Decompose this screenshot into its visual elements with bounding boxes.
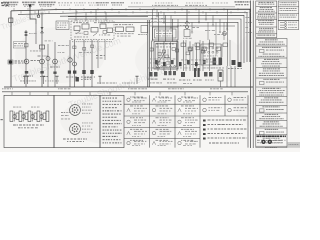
wire id labels	[246, 12, 252, 33]
label	[58, 51, 59, 54]
component row upper	[181, 43, 228, 51]
label	[20, 80, 22, 83]
label	[15, 61, 26, 64]
wire drops extra	[186, 40, 230, 71]
legend right column text	[280, 2, 297, 17]
cell divider	[224, 95, 226, 116]
label	[29, 32, 31, 35]
connector oval	[223, 32, 227, 36]
border divider	[250, 1, 252, 149]
inline component	[83, 48, 86, 51]
symbol cell	[178, 106, 198, 115]
label	[181, 59, 184, 62]
symbol cell	[228, 107, 247, 112]
watermark	[0, 7, 178, 110]
gauge G2	[40, 59, 45, 64]
connector labels	[148, 67, 214, 84]
label	[122, 83, 123, 84]
label	[97, 83, 99, 84]
legend right column frame	[278, 1, 299, 21]
wire	[69, 40, 71, 87]
ignition switch	[180, 25, 199, 39]
wire	[47, 44, 49, 87]
component cluster	[68, 71, 71, 74]
label	[45, 40, 48, 43]
connector C3	[141, 26, 148, 33]
round connector C210	[70, 104, 93, 116]
harness plug symbols	[23, 76, 139, 84]
relay K2	[213, 58, 217, 66]
symbol cell	[203, 97, 222, 102]
tie-downs to detail band	[12, 92, 232, 96]
title block	[235, 1, 250, 5]
symbol grid frame	[124, 95, 200, 147]
label	[183, 63, 186, 66]
component mark	[25, 71, 28, 74]
wire drop to cluster	[75, 9, 77, 21]
wire drops right	[227, 66, 235, 87]
caption	[63, 139, 87, 143]
wire bottom bus	[4, 86, 253, 88]
header rule	[128, 6, 235, 8]
fuse F1	[40, 45, 45, 49]
symbol cell	[152, 129, 171, 137]
wire drop to cluster	[105, 12, 107, 21]
connector clusters row	[149, 68, 223, 87]
wire drop	[223, 22, 225, 40]
component mark	[238, 62, 242, 67]
label	[211, 67, 212, 70]
symbol cell	[152, 106, 172, 115]
wire drop to switch	[158, 12, 160, 41]
label	[228, 67, 230, 70]
relay K3	[219, 58, 223, 66]
symbol cell	[178, 117, 198, 126]
symbol cell	[152, 140, 172, 146]
page number	[1, 119, 3, 120]
wire drop	[215, 22, 217, 40]
caption	[13, 125, 44, 129]
label	[81, 79, 83, 80]
symbol cell	[203, 107, 222, 112]
wire drops center-right	[152, 40, 210, 71]
label above wire	[152, 5, 207, 6]
wire tap ticks	[14, 8, 245, 14]
label	[214, 33, 216, 36]
feed wire from top	[30, 4, 36, 24]
fuse F2	[24, 44, 28, 47]
label	[151, 21, 153, 24]
wire	[227, 9, 229, 66]
label	[45, 80, 46, 83]
page label	[1, 2, 9, 6]
wire drop to cluster	[95, 9, 97, 21]
wire drop	[152, 9, 154, 41]
wire	[74, 40, 76, 87]
legend left column frame	[256, 1, 277, 38]
module pins and text	[203, 47, 218, 62]
wire drop to switch	[165, 15, 167, 41]
legend stack frame	[256, 39, 287, 148]
wire drop to switch	[172, 19, 174, 42]
inline connectors	[150, 48, 205, 53]
label	[79, 51, 82, 54]
wire	[41, 12, 43, 87]
symbol cell	[127, 129, 147, 137]
instrument cluster box	[71, 21, 114, 40]
label	[61, 112, 71, 119]
wire bus 5	[100, 22, 238, 65]
connector C2	[41, 27, 44, 30]
wire	[91, 40, 93, 87]
label	[66, 77, 69, 78]
wiring legend list	[103, 98, 122, 144]
legend header band	[257, 136, 260, 138]
bus taps	[156, 9, 228, 33]
label	[24, 76, 26, 77]
top label band	[3, 2, 228, 7]
detail box frame 3	[100, 95, 124, 147]
wire	[83, 40, 85, 87]
detail box frame 1	[4, 95, 54, 147]
label	[150, 62, 152, 65]
gauge G6	[46, 57, 50, 61]
wire	[186, 9, 188, 25]
label box text	[57, 23, 68, 28]
wire trunk	[147, 20, 149, 87]
wire drop	[207, 22, 209, 40]
instrument cluster internals	[73, 19, 113, 38]
round connector C229	[70, 123, 93, 135]
wire split	[185, 21, 190, 25]
inline component	[73, 46, 76, 49]
symbol cell	[127, 106, 147, 115]
bulkhead connector strip	[10, 107, 49, 122]
wire bus 2	[18, 12, 247, 62]
wire	[97, 40, 99, 68]
symbol cell	[127, 97, 147, 103]
wire drop to cluster	[85, 12, 87, 21]
label	[150, 58, 152, 61]
gauge G5	[73, 62, 77, 66]
gauge G3	[53, 59, 58, 64]
wire	[104, 40, 106, 60]
wire left bus	[10, 11, 12, 87]
symbol cell	[178, 129, 197, 137]
wire	[54, 42, 56, 87]
cluster pin labels	[72, 40, 73, 43]
label box	[56, 21, 69, 30]
symbol cell	[127, 140, 147, 146]
gauge G4	[68, 58, 72, 62]
label	[40, 76, 43, 77]
symbol cell	[152, 117, 171, 126]
connector arrow	[28, 5, 31, 9]
symbol cell	[228, 97, 246, 102]
label	[84, 77, 86, 80]
watermark band	[288, 142, 301, 148]
component mark	[53, 72, 56, 74]
symbol cell	[127, 117, 146, 126]
label	[14, 42, 17, 45]
module box	[201, 44, 221, 65]
label under bus	[2, 88, 223, 89]
headlamp switch box	[154, 42, 178, 70]
legend stack text	[258, 39, 285, 148]
gauge G1	[24, 59, 29, 64]
component mark	[40, 71, 43, 74]
wire bus 4	[68, 19, 241, 64]
notes list	[203, 120, 247, 140]
label frame	[13, 42, 26, 48]
scan mottle	[15, 27, 290, 145]
component mark	[90, 70, 93, 74]
legend grommet icons	[257, 140, 286, 144]
label	[31, 60, 34, 61]
fuse panel text	[156, 31, 173, 37]
switch cluster	[115, 24, 134, 36]
component band	[155, 60, 206, 66]
headlamp switch internals	[156, 44, 176, 68]
legend symbol key	[278, 21, 299, 30]
wire bus 3	[60, 15, 244, 63]
detail box frame 2	[54, 95, 100, 147]
label	[38, 56, 41, 57]
connector marks	[25, 32, 28, 34]
notes caption	[209, 143, 239, 144]
inline components	[158, 47, 199, 58]
symbol cell	[178, 140, 198, 146]
label	[96, 55, 99, 56]
label	[81, 77, 83, 78]
label	[50, 67, 53, 68]
wire lower bus	[2, 91, 248, 93]
label	[30, 50, 32, 53]
wire	[35, 24, 37, 44]
connector stub	[38, 10, 40, 15]
relay K1	[9, 60, 13, 64]
label	[58, 44, 60, 47]
component mark	[82, 70, 85, 74]
component mark	[232, 60, 236, 65]
fuse panel	[153, 27, 179, 40]
symbol cell	[152, 97, 172, 103]
inline component	[91, 45, 94, 48]
wire segment	[68, 16, 148, 18]
symbol cell	[178, 97, 198, 103]
label	[205, 29, 208, 32]
component blob	[76, 77, 79, 82]
wire bus 1	[11, 9, 250, 62]
wire	[25, 30, 27, 87]
wire segment	[150, 25, 235, 27]
junction box	[9, 18, 13, 23]
legend left column text	[257, 2, 275, 36]
label	[151, 17, 153, 20]
